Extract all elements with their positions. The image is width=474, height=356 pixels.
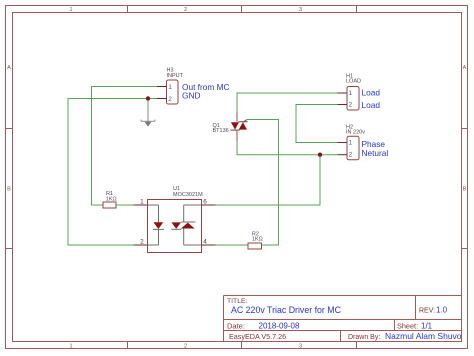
svg-text:BT136: BT136 [213,128,229,134]
svg-text:GND: GND [182,91,200,101]
svg-text:INPUT: INPUT [167,73,184,79]
svg-text:Load: Load [362,100,381,110]
svg-text:1: 1 [349,140,353,147]
svg-text:1/1: 1/1 [421,322,433,331]
svg-text:2: 2 [168,96,172,103]
svg-text:TITLE:: TITLE: [227,298,248,305]
svg-text:2: 2 [184,344,187,350]
svg-text:B: B [7,187,11,193]
svg-text:Nazmul Alam Shuvo: Nazmul Alam Shuvo [385,331,462,341]
svg-text:1: 1 [168,84,172,91]
svg-text:IN 220v: IN 220v [346,130,365,136]
svg-text:2: 2 [349,102,353,109]
svg-text:Drawn By:: Drawn By: [348,334,380,341]
svg-text:1KΩ: 1KΩ [252,237,263,243]
svg-text:2: 2 [349,152,353,159]
svg-text:1: 1 [69,7,72,13]
svg-text:EasyEDA V5.7.26: EasyEDA V5.7.26 [229,332,286,341]
svg-text:MOC3021M: MOC3021M [173,192,203,198]
svg-text:1.0: 1.0 [436,306,448,315]
svg-text:6: 6 [203,199,207,206]
svg-text:A: A [463,65,467,71]
svg-text:1KΩ: 1KΩ [106,197,117,203]
svg-text:AC 220v Triac Driver for MC: AC 220v Triac Driver for MC [231,305,342,315]
svg-text:B: B [463,187,467,193]
svg-text:2018-09-08: 2018-09-08 [259,322,300,331]
svg-text:2: 2 [184,7,187,13]
svg-text:A: A [7,65,11,71]
svg-text:Sheet:: Sheet: [397,322,418,331]
svg-text:1: 1 [349,90,353,97]
svg-text:2: 2 [140,239,144,246]
svg-text:Load: Load [362,87,381,97]
svg-text:3: 3 [299,344,302,350]
svg-text:Date:: Date: [227,322,245,331]
svg-text:1: 1 [140,199,144,206]
svg-text:LOAD: LOAD [346,79,361,85]
svg-text:REV:: REV: [419,308,435,315]
svg-text:Netural: Netural [362,148,389,158]
svg-text:4: 4 [203,239,207,246]
svg-text:3: 3 [299,7,302,13]
svg-text:1: 1 [69,344,72,350]
